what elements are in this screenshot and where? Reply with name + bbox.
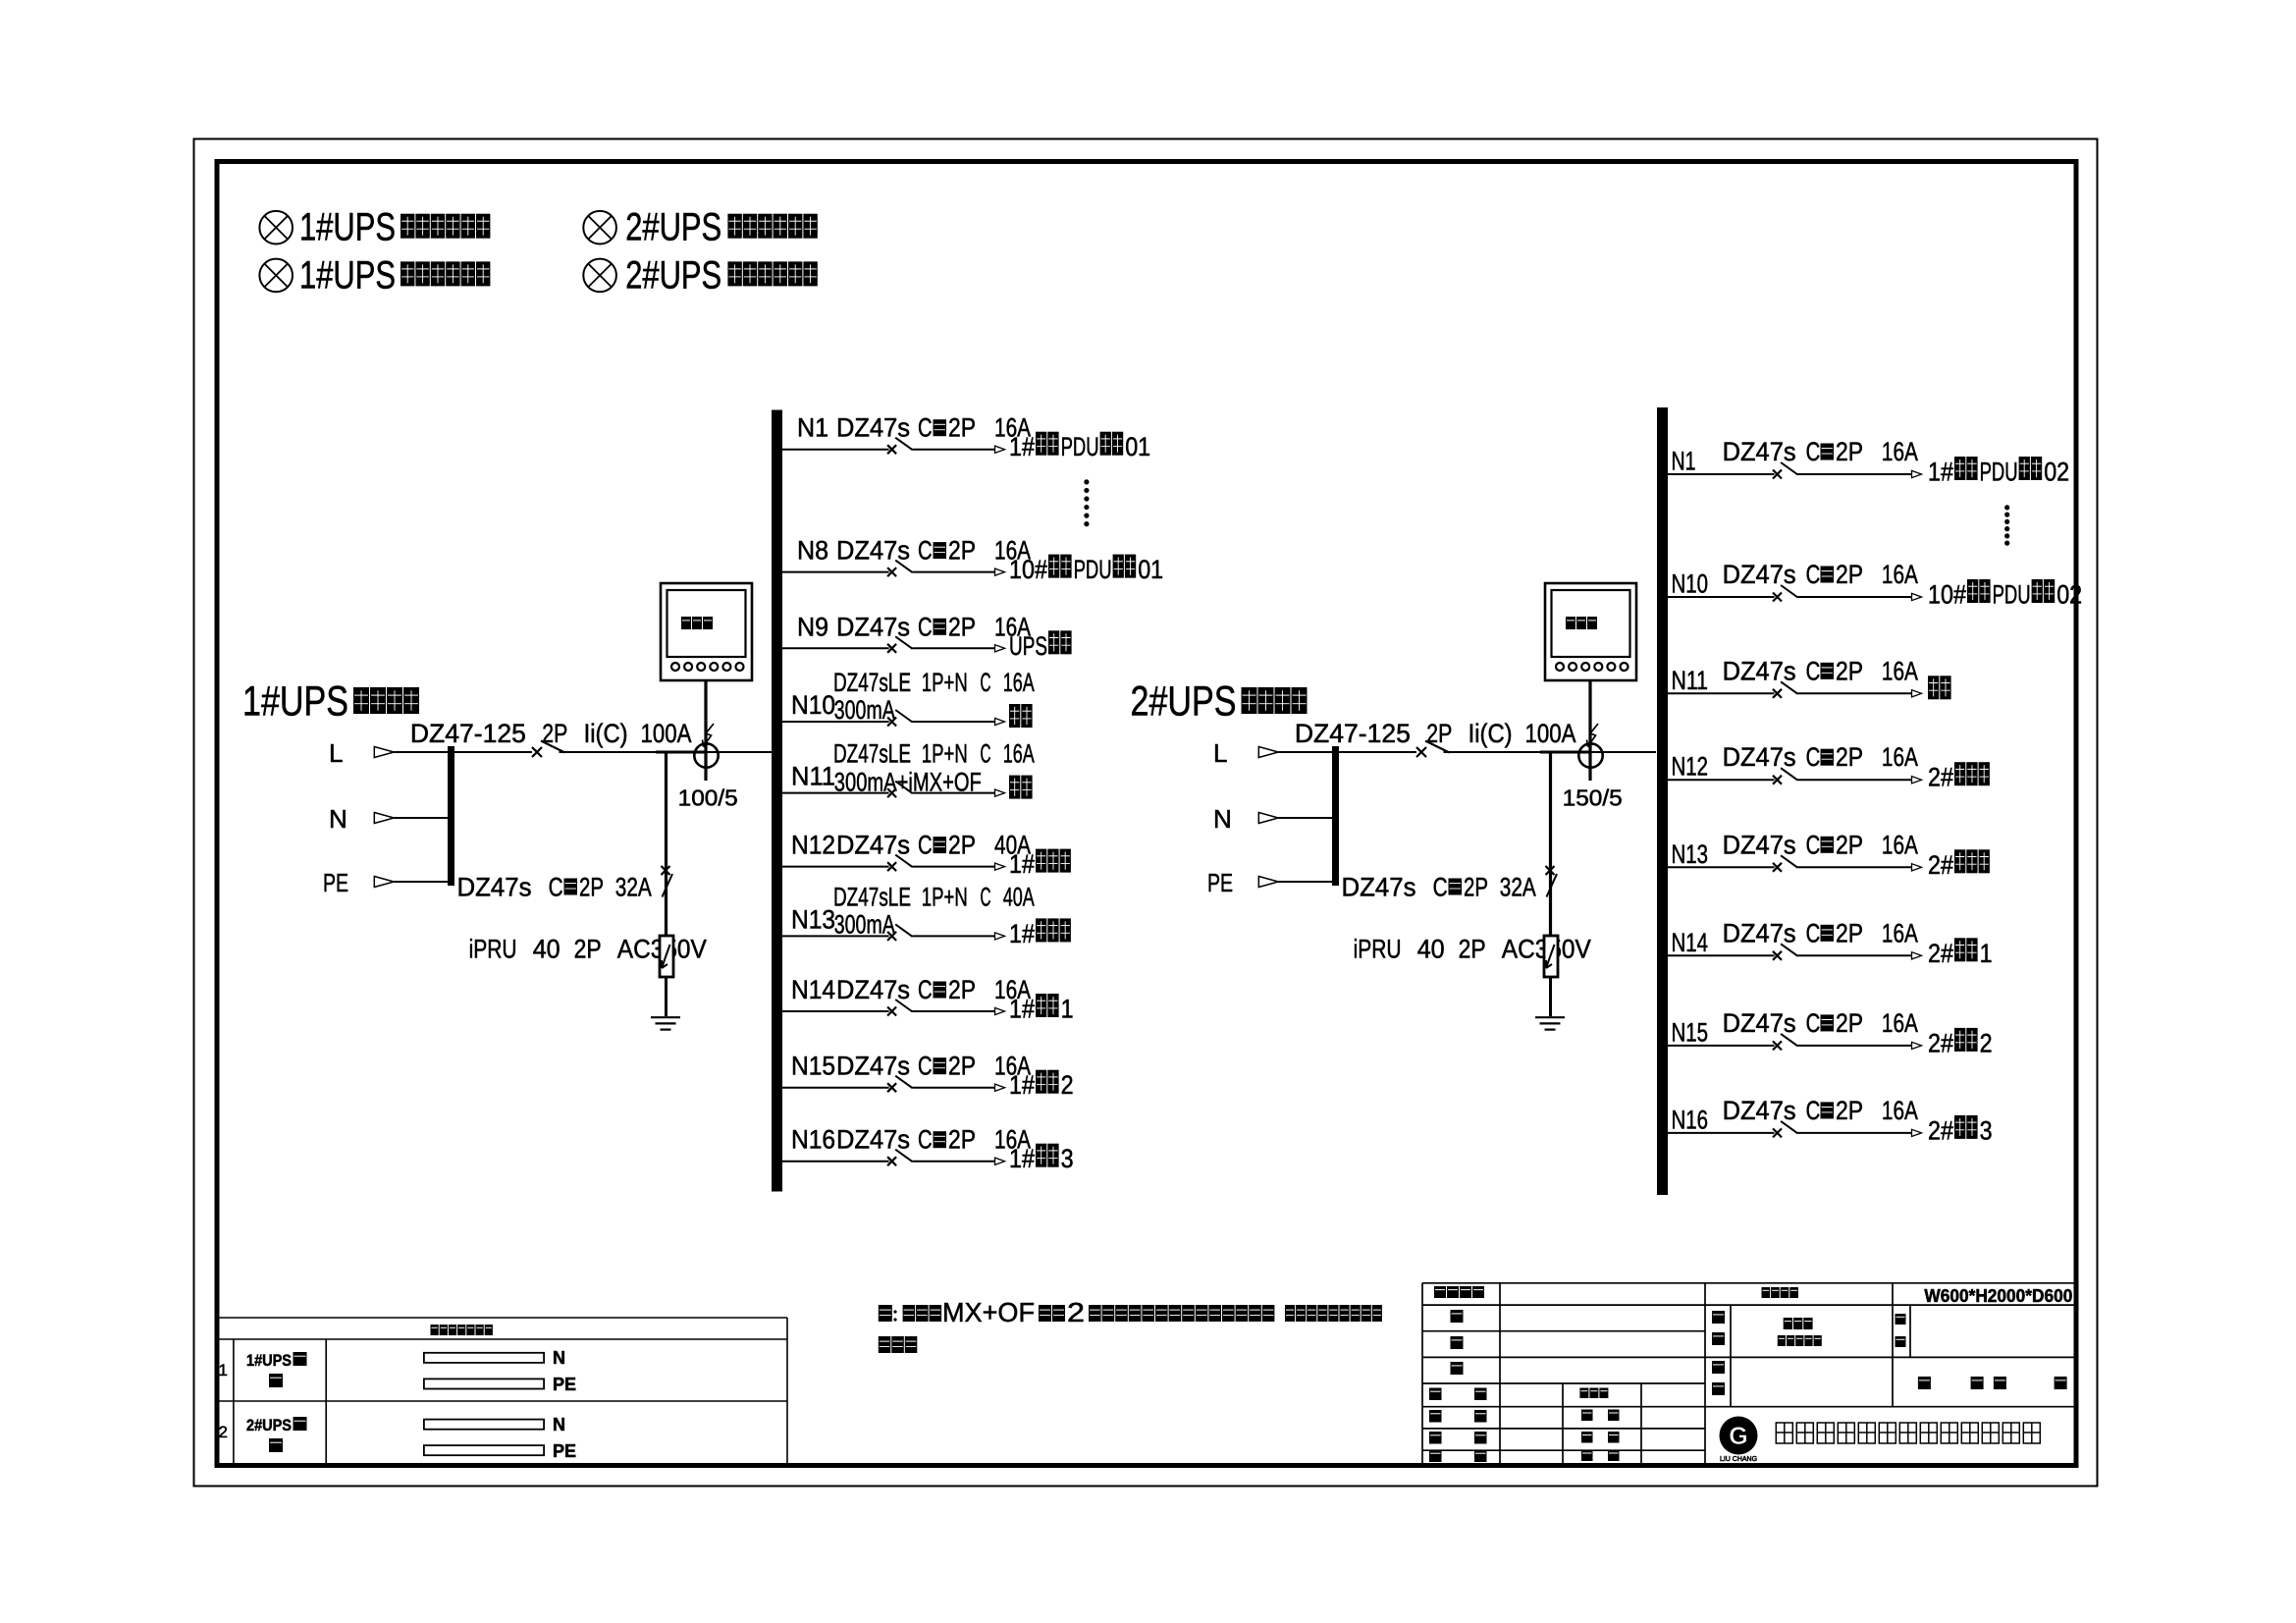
svg-text:2#UPS: 2#UPS <box>1131 678 1237 726</box>
svg-text:1#: 1# <box>1009 919 1035 948</box>
terminal PE input arrow (left) <box>323 868 448 897</box>
svg-text:N1: N1 <box>1672 447 1696 476</box>
breaker N8 contact cross <box>887 568 896 576</box>
label 1#UPS输出合闸指示 <box>299 253 490 297</box>
load arrow N11 <box>1912 690 1922 697</box>
wire N15 breaker to load arrow <box>1798 1045 1913 1047</box>
svg-text:DZ47s: DZ47s <box>836 612 910 641</box>
svg-text:300mA: 300mA <box>834 909 895 939</box>
svg-text:2P: 2P <box>1836 437 1863 466</box>
breaker N9 (left bus) branch <box>782 612 1072 661</box>
load arrow N13 <box>995 933 1005 940</box>
breaker N9 contact cross <box>887 644 896 653</box>
wire N16 from bus to breaker <box>1668 1132 1775 1134</box>
label 2#UPS输出电源指示 <box>625 206 818 249</box>
table header 外部接线端子排 <box>431 1325 439 1335</box>
svg-text:1#: 1# <box>1009 432 1035 461</box>
breaker N8 switch blade <box>895 561 912 573</box>
breaker N15 (right bus) branch <box>1668 1008 1993 1058</box>
svg-text:10#: 10# <box>1928 580 1966 610</box>
svg-text:2P: 2P <box>948 975 976 1004</box>
svg-text:N14: N14 <box>791 975 835 1004</box>
load arrow N16 <box>995 1158 1005 1164</box>
svg-text:C: C <box>1806 560 1821 589</box>
svg-text:2: 2 <box>1067 1297 1085 1327</box>
svg-text:40: 40 <box>1417 935 1445 964</box>
svg-text:N16: N16 <box>791 1125 835 1155</box>
svg-text:C: C <box>1806 1096 1821 1125</box>
svg-text:1: 1 <box>1980 939 1993 968</box>
svg-text:N12: N12 <box>791 831 835 860</box>
svg-text:2P: 2P <box>1836 1096 1863 1125</box>
note 注: 门禁的MX+OF... (two lines) <box>879 1297 1382 1353</box>
svg-text:PDU: PDU <box>1993 580 2031 610</box>
breaker N16 switch blade <box>1781 1121 1797 1134</box>
svg-text:2P: 2P <box>948 536 976 566</box>
svg-text:2: 2 <box>1980 1028 1993 1057</box>
wire N10 breaker to load arrow <box>913 721 996 723</box>
wire N13 breaker to load arrow <box>1798 866 1913 868</box>
svg-text:iPRU: iPRU <box>1354 935 1402 964</box>
breaker N15 switch blade <box>1781 1034 1797 1047</box>
svg-text:DZ47s: DZ47s <box>836 1125 910 1155</box>
wire N13 from bus to breaker <box>782 935 889 937</box>
svg-text:1: 1 <box>1061 995 1074 1024</box>
svg-text:N11: N11 <box>1672 666 1709 695</box>
svg-text:40: 40 <box>533 935 561 964</box>
svg-text:PDU: PDU <box>1061 432 1099 461</box>
svg-text:N13: N13 <box>791 904 835 934</box>
wire N13 breaker to load arrow <box>913 935 996 937</box>
wire N10 breaker to load arrow <box>1798 596 1913 598</box>
wire N1 breaker to load arrow <box>1798 473 1913 475</box>
svg-text:2P: 2P <box>1426 719 1452 748</box>
svg-text:2#UPS: 2#UPS <box>625 253 721 297</box>
svg-text:1P+N: 1P+N <box>922 739 968 769</box>
wire N1 from bus to breaker <box>782 449 889 451</box>
terminal PE input arrow (right) <box>1207 868 1332 897</box>
lamp HL3 2#UPS output power indicator <box>583 211 616 244</box>
breaker N1 contact cross <box>1773 470 1782 479</box>
svg-text:2P: 2P <box>1836 656 1863 685</box>
svg-text:1#: 1# <box>1009 1144 1035 1173</box>
company name 石家庄流畅电子科技有限公司 <box>1776 1423 1792 1443</box>
svg-text:16A: 16A <box>1003 668 1035 697</box>
wire N16 breaker to load arrow <box>913 1161 996 1163</box>
svg-text:2P: 2P <box>1836 918 1863 947</box>
wire N14 breaker to load arrow <box>913 1010 996 1012</box>
svg-text:DZ47-125: DZ47-125 <box>1295 719 1411 748</box>
company logo (LIU CHANG) <box>1720 1417 1758 1464</box>
svg-text:N12: N12 <box>1672 752 1709 782</box>
svg-text:DZ47s: DZ47s <box>1723 1096 1796 1125</box>
lamp HL1 1#UPS output power indicator <box>259 211 293 244</box>
svg-text:1#: 1# <box>1928 458 1953 487</box>
breaker N8 (left bus) branch <box>782 536 1163 585</box>
svg-text:N15: N15 <box>791 1052 835 1081</box>
svg-text:PE: PE <box>323 868 348 897</box>
wire N1 breaker to load arrow <box>913 449 996 451</box>
svg-text:01: 01 <box>1125 432 1150 461</box>
svg-text:Ii(C): Ii(C) <box>584 719 628 748</box>
svg-text:1#: 1# <box>1009 995 1035 1024</box>
load label for N11 <box>1928 676 1939 699</box>
wire N1 from bus to breaker <box>1668 473 1775 475</box>
svg-text:1#UPS: 1#UPS <box>299 253 396 297</box>
breaker QS SPD DZ47s C*2P 32A (left) <box>457 866 673 902</box>
sheet outer thin border <box>194 139 2098 1487</box>
svg-text:C: C <box>1433 873 1448 902</box>
svg-text:16A: 16A <box>1882 742 1918 772</box>
breaker QS SPD DZ47s C*2P 32A (right) <box>1342 866 1558 902</box>
breaker N9 switch blade <box>895 636 912 649</box>
svg-text:G: G <box>1729 1423 1747 1450</box>
svg-text:2: 2 <box>219 1423 228 1441</box>
svg-text:DZ47s: DZ47s <box>836 975 910 1004</box>
svg-text:DZ47s: DZ47s <box>836 536 910 566</box>
breaker N12 (left bus) branch <box>782 831 1071 880</box>
svg-text:2P: 2P <box>542 719 567 748</box>
svg-text:DZ47s: DZ47s <box>1723 830 1796 859</box>
wire junction to SPD branch (right) <box>1549 752 1552 947</box>
svg-text:2#: 2# <box>1928 1028 1953 1057</box>
svg-text:100A: 100A <box>641 719 692 748</box>
breaker N14 contact cross <box>1773 951 1782 960</box>
breaker N1 switch blade <box>1781 462 1797 475</box>
breaker N10 contact cross <box>1773 593 1782 602</box>
svg-text:1#: 1# <box>1009 1070 1035 1100</box>
svg-text:iPRU: iPRU <box>469 935 517 964</box>
breaker N12 (right bus) branch <box>1668 742 1990 792</box>
svg-text:C: C <box>918 413 933 443</box>
breaker N14 contact cross <box>887 1007 896 1016</box>
breaker N10 switch blade <box>895 710 912 723</box>
svg-text:DZ47s: DZ47s <box>1723 656 1796 685</box>
breaker N11 switch blade <box>895 782 912 794</box>
breaker N12 switch blade <box>1781 768 1797 781</box>
load arrow N12 <box>1912 777 1922 784</box>
title 1#UPS输出接入 <box>242 678 419 726</box>
terminal strip table (bottom left) <box>217 1318 787 1466</box>
svg-text:16A: 16A <box>1882 830 1918 859</box>
breaker N11 (right bus) branch <box>1668 656 1951 699</box>
wire N12 from bus to breaker <box>1668 779 1775 781</box>
breaker N13 contact cross <box>1773 863 1782 872</box>
breaker N16 contact cross <box>887 1157 896 1165</box>
svg-text:16A: 16A <box>1882 918 1918 947</box>
svg-text:2#: 2# <box>1928 939 1953 968</box>
svg-text:2P: 2P <box>1836 1008 1863 1038</box>
svg-text:C: C <box>1806 437 1821 466</box>
breaker N13 (left bus) branch <box>782 882 1071 948</box>
title block grid <box>1422 1283 2077 1466</box>
load arrow N1 <box>1912 470 1922 477</box>
lamp HL2 1#UPS output closed indicator <box>259 259 293 293</box>
breaker N14 switch blade <box>895 1000 912 1012</box>
wire N11 breaker to load arrow <box>1798 692 1913 694</box>
svg-text:01: 01 <box>1138 555 1163 584</box>
load arrow N10 <box>1912 593 1922 600</box>
svg-text:DZ47-125: DZ47-125 <box>410 719 526 748</box>
svg-text:DZ47s: DZ47s <box>1723 742 1796 772</box>
svg-text:300mA: 300mA <box>834 695 895 725</box>
svg-text:N: N <box>553 1415 565 1434</box>
breaker N13 contact cross <box>887 932 896 941</box>
wire N12 breaker to load arrow <box>913 866 996 868</box>
load arrow N14 <box>995 1007 1005 1014</box>
table row 2 — 2#UPS input, N / PE bars <box>219 1415 577 1461</box>
load arrow N9 <box>995 645 1005 652</box>
power meter (电度表) (left) <box>661 583 752 680</box>
svg-text:PE: PE <box>1207 868 1233 897</box>
wire N8 breaker to load arrow <box>913 571 996 573</box>
wire PE to busbar (left) <box>394 881 448 883</box>
label 1#UPS输出电源指示 <box>299 206 490 249</box>
svg-text:N1: N1 <box>797 413 828 443</box>
breaker N1 switch blade <box>895 438 912 451</box>
breaker N10 contact cross <box>887 718 896 727</box>
svg-text:2#: 2# <box>1928 1115 1953 1145</box>
svg-text:2#: 2# <box>1928 850 1953 880</box>
svg-text:N8: N8 <box>797 536 828 566</box>
table row 1 — 1#UPS input, N / PE bars <box>219 1348 577 1394</box>
svg-text:1P+N: 1P+N <box>922 668 968 697</box>
load arrow N11 <box>995 789 1005 796</box>
wire N11 breaker to load arrow <box>913 792 996 794</box>
breaker N16 switch blade <box>895 1150 912 1163</box>
load arrow N15 <box>1912 1042 1922 1049</box>
svg-text:16A: 16A <box>1882 1096 1918 1125</box>
svg-text:32A: 32A <box>1500 873 1536 902</box>
svg-text:N15: N15 <box>1672 1017 1709 1047</box>
power meter (电度表) (right) <box>1545 583 1636 680</box>
terminal L input arrow (left) <box>329 738 448 768</box>
breaker N16 (right bus) branch <box>1668 1096 1993 1146</box>
svg-text:N9: N9 <box>797 612 828 641</box>
svg-text:DZ47s: DZ47s <box>1723 437 1796 466</box>
svg-text:2P: 2P <box>1459 935 1486 964</box>
load arrow N10 <box>995 718 1005 725</box>
svg-text:1#: 1# <box>1009 849 1035 879</box>
svg-text:3: 3 <box>1980 1115 1993 1145</box>
load label for N10 <box>1009 704 1020 728</box>
svg-text:16A: 16A <box>1882 656 1918 685</box>
svg-text:C: C <box>1806 830 1821 859</box>
wire N16 breaker to load arrow <box>1798 1132 1913 1134</box>
wire N15 from bus to breaker <box>782 1087 889 1089</box>
svg-text:DZ47s: DZ47s <box>1723 918 1796 947</box>
breaker QF main DZ47-125 2P Ii(C) 100A (right) <box>1295 719 1656 757</box>
wire N15 breaker to load arrow <box>913 1087 996 1089</box>
svg-text:DZ47s: DZ47s <box>836 1052 910 1081</box>
svg-text:2P: 2P <box>948 1052 976 1081</box>
breaker N14 (left bus) branch <box>782 975 1074 1024</box>
breaker N1 contact cross <box>887 445 896 454</box>
svg-text:16A: 16A <box>1882 1008 1918 1038</box>
svg-text:DZ47sLE: DZ47sLE <box>833 882 911 911</box>
svg-text:C: C <box>918 1125 933 1155</box>
svg-text:2P: 2P <box>579 873 604 902</box>
input busbar (vertical bold bar) (left) <box>448 746 454 886</box>
svg-text:C: C <box>918 1052 933 1081</box>
svg-text:PE: PE <box>553 1441 576 1461</box>
wire N9 breaker to load arrow <box>913 647 996 649</box>
svg-text:L: L <box>1213 738 1227 768</box>
breaker N13 switch blade <box>1781 855 1797 868</box>
breaker N16 (left bus) branch <box>782 1125 1074 1174</box>
svg-text:N10: N10 <box>1672 569 1709 599</box>
svg-text:2#: 2# <box>1928 763 1953 792</box>
wire N10 from bus to breaker <box>782 721 889 723</box>
ground symbol (left) <box>651 1017 680 1029</box>
svg-text:1P+N: 1P+N <box>922 882 968 911</box>
terminal L input arrow (right) <box>1213 738 1332 768</box>
breaker N10 (left bus) branch <box>782 668 1035 728</box>
svg-text:1#UPS: 1#UPS <box>246 1351 292 1370</box>
svg-text:DZ47s: DZ47s <box>836 413 910 443</box>
wire N8 from bus to breaker <box>782 571 889 573</box>
load arrow N13 <box>1912 864 1922 871</box>
svg-text:MX+OF: MX+OF <box>942 1297 1035 1327</box>
breaker N12 switch blade <box>895 855 912 868</box>
distribution bus bar (left, vertical bold) <box>772 410 782 1192</box>
wire N14 from bus to breaker <box>1668 954 1775 956</box>
svg-text:N10: N10 <box>791 690 835 720</box>
svg-text:C: C <box>918 536 933 566</box>
svg-text:16A: 16A <box>1003 739 1035 769</box>
load arrow N16 <box>1912 1129 1922 1136</box>
breaker N1 (left bus) branch <box>782 413 1150 462</box>
svg-text:C: C <box>981 882 991 911</box>
terminal N input arrow (right) <box>1213 804 1332 834</box>
svg-text:W600*H2000*D600: W600*H2000*D600 <box>1924 1286 2072 1306</box>
wire L to busbar (left) <box>394 751 448 753</box>
wire N11 from bus to breaker <box>1668 692 1775 694</box>
breaker N14 (right bus) branch <box>1668 918 1993 968</box>
svg-text:DZ47s: DZ47s <box>1342 873 1416 902</box>
breaker N12 contact cross <box>1773 776 1782 784</box>
wire N13 from bus to breaker <box>1668 866 1775 868</box>
svg-text:PDU: PDU <box>1074 555 1112 584</box>
breaker N12 contact cross <box>887 862 896 871</box>
svg-text:32A: 32A <box>615 873 652 902</box>
breaker N11 contact cross <box>1773 689 1782 698</box>
svg-text:16A: 16A <box>1882 437 1918 466</box>
ellipsis dots between N1 and N8 (left) <box>1084 479 1089 526</box>
breaker N15 switch blade <box>895 1076 912 1089</box>
current transformer CT 100/5 (left) <box>656 680 738 811</box>
breaker N15 contact cross <box>887 1083 896 1092</box>
svg-text:1#UPS: 1#UPS <box>299 206 396 249</box>
svg-text:02: 02 <box>2056 580 2082 610</box>
lamp HL4 2#UPS output closed indicator <box>583 259 616 293</box>
sheet inner thick border frame <box>217 162 2076 1466</box>
svg-text:C: C <box>1806 656 1821 685</box>
svg-text:10#: 10# <box>1009 555 1047 584</box>
svg-text:C: C <box>1806 918 1821 947</box>
svg-text:C: C <box>549 873 563 902</box>
breaker N13 (right bus) branch <box>1668 830 1990 880</box>
ellipsis dots between N1 and N10 (right) <box>2004 505 2009 545</box>
title block left column labels <box>1429 1286 1620 1462</box>
wire N12 from bus to breaker <box>782 866 889 868</box>
breaker N11 (left bus) branch <box>782 739 1035 799</box>
svg-text:2P: 2P <box>948 612 976 641</box>
svg-text:2P: 2P <box>574 935 602 964</box>
svg-text:2P: 2P <box>1464 873 1488 902</box>
svg-text:100A: 100A <box>1525 719 1576 748</box>
wire N15 from bus to breaker <box>1668 1045 1775 1047</box>
svg-text:DZ47sLE: DZ47sLE <box>833 739 911 769</box>
svg-text:3: 3 <box>1061 1144 1074 1173</box>
terminal N input arrow (left) <box>329 804 448 834</box>
breaker N15 (left bus) branch <box>782 1052 1074 1101</box>
svg-text:2#UPS: 2#UPS <box>625 206 721 249</box>
svg-text:1: 1 <box>219 1361 228 1380</box>
load arrow N12 <box>995 863 1005 870</box>
surge protector SPD iPRU 40 2P AC350V (left) <box>469 935 707 1017</box>
surge protector SPD iPRU 40 2P AC350V (right) <box>1354 935 1591 1017</box>
breaker N14 switch blade <box>1781 944 1797 956</box>
breaker N13 switch blade <box>895 924 912 937</box>
svg-text:150/5: 150/5 <box>1563 785 1623 811</box>
distribution bus bar (right, vertical bold) <box>1657 407 1668 1195</box>
title 2#UPS输出接入 <box>1131 678 1308 726</box>
breaker N11 switch blade <box>1781 681 1797 694</box>
svg-text:2P: 2P <box>948 1125 976 1155</box>
svg-text:2#UPS: 2#UPS <box>246 1416 292 1434</box>
wire PE to busbar (right) <box>1278 881 1332 883</box>
breaker N15 contact cross <box>1773 1041 1782 1050</box>
svg-text:2P: 2P <box>948 831 976 860</box>
svg-text:C: C <box>918 975 933 1004</box>
svg-text:40A: 40A <box>1003 882 1035 911</box>
wire N10 from bus to breaker <box>1668 596 1775 598</box>
svg-text:DZ47s: DZ47s <box>836 831 910 860</box>
load arrow N8 <box>995 568 1005 575</box>
svg-text:DZ47s: DZ47s <box>1723 560 1796 589</box>
load arrow N15 <box>995 1084 1005 1091</box>
svg-text:N11: N11 <box>791 762 835 791</box>
wire N12 breaker to load arrow <box>1798 779 1913 781</box>
svg-text:DZ47s: DZ47s <box>457 873 532 902</box>
svg-text:L: L <box>329 738 343 768</box>
svg-text:16A: 16A <box>1882 560 1918 589</box>
breaker N10 (right bus) branch <box>1668 560 2082 610</box>
breaker QF main DZ47-125 2P Ii(C) 100A (left) <box>410 719 772 757</box>
breaker N11 contact cross <box>887 788 896 797</box>
wire N9 from bus to breaker <box>782 647 889 649</box>
breaker N1 (right bus) branch <box>1668 437 2069 487</box>
svg-text:N16: N16 <box>1672 1105 1709 1134</box>
load label for N11 <box>1009 776 1020 799</box>
svg-text:N14: N14 <box>1672 928 1709 957</box>
label 2#UPS输出合闸指示 <box>625 253 818 297</box>
svg-text:C: C <box>918 831 933 860</box>
svg-text:Ii(C): Ii(C) <box>1468 719 1513 748</box>
svg-text:100/5: 100/5 <box>678 785 738 811</box>
breaker N16 contact cross <box>1773 1128 1782 1137</box>
load arrow N14 <box>1912 952 1922 959</box>
load arrow N1 <box>995 446 1005 453</box>
wire N to busbar (right) <box>1278 817 1332 819</box>
svg-text:C: C <box>918 612 933 641</box>
svg-text:2P: 2P <box>948 413 976 443</box>
svg-text:PDU: PDU <box>1980 458 2018 487</box>
svg-text:2: 2 <box>1061 1070 1074 1100</box>
svg-text:2P: 2P <box>1836 742 1863 772</box>
wire junction to SPD branch (left) <box>665 752 667 947</box>
